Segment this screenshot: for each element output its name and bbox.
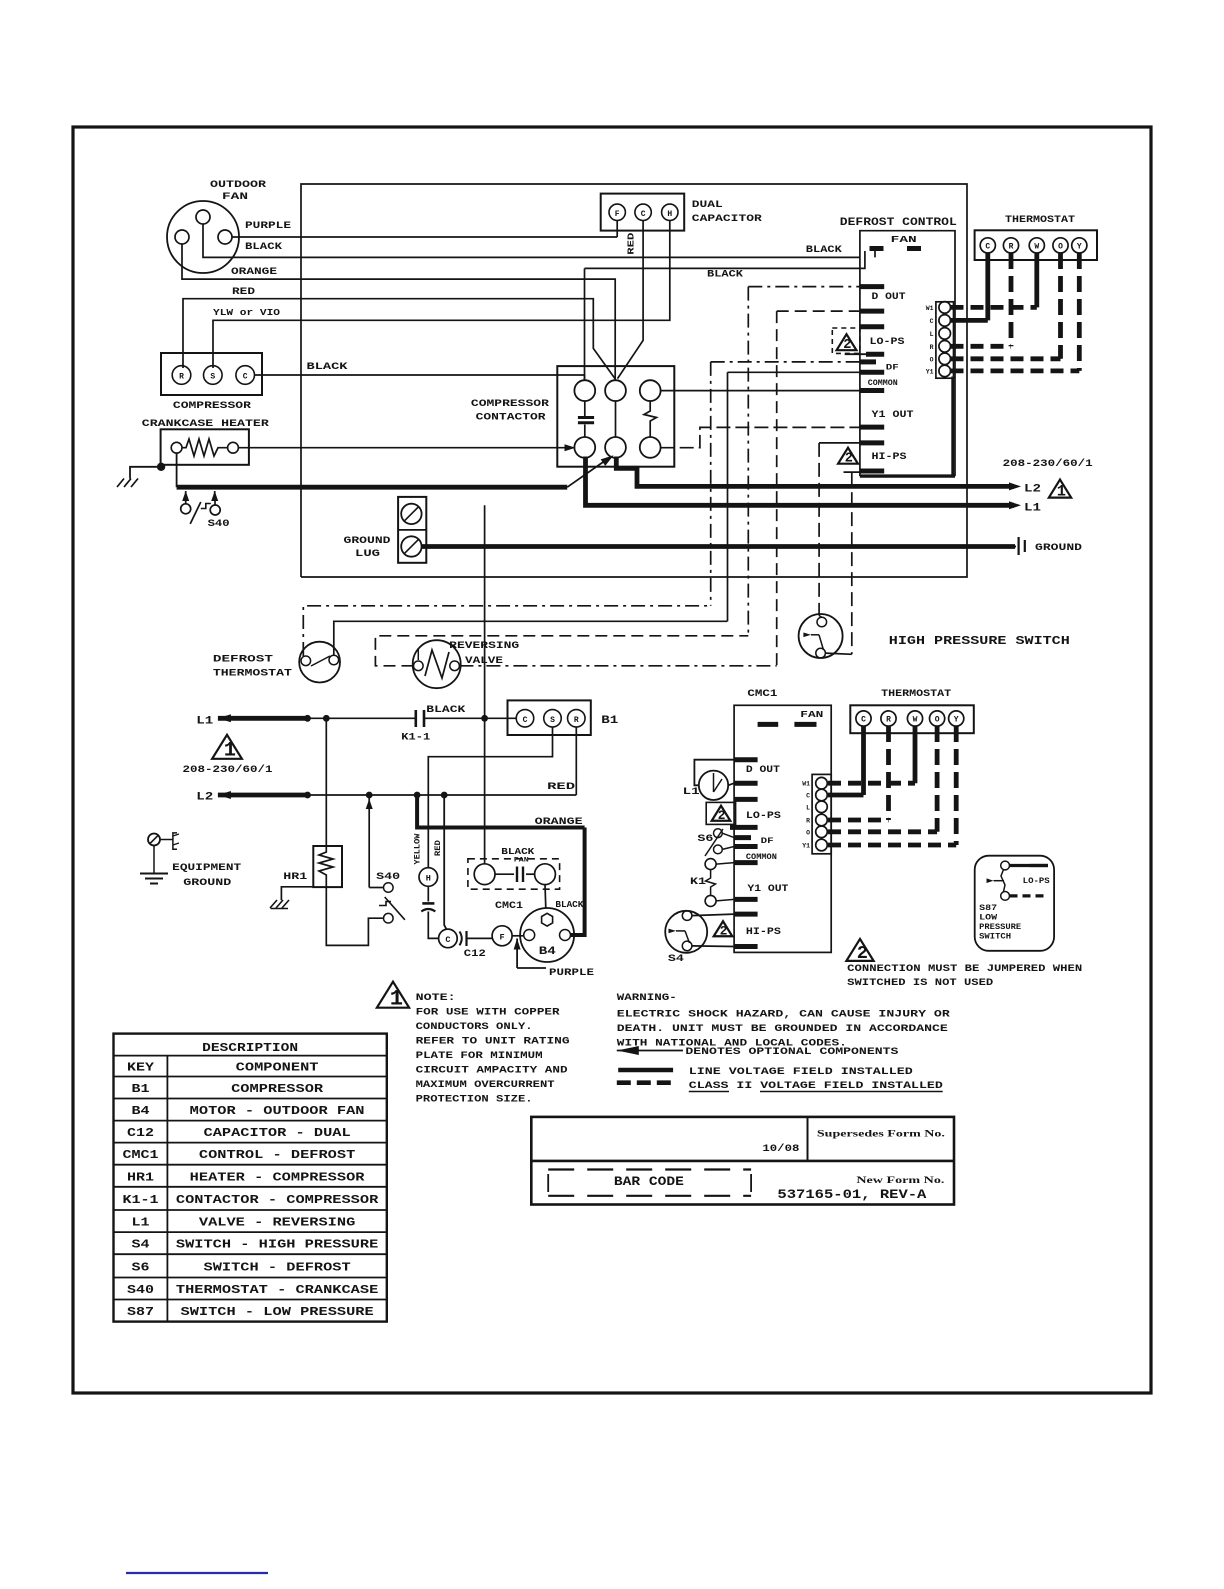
svg-text:DUAL: DUAL — [692, 199, 723, 211]
legend table column divider — [166, 1056, 168, 1322]
svg-text:R: R — [179, 373, 184, 382]
stem S40 right — [214, 491, 216, 506]
svg-text:FAN: FAN — [800, 709, 823, 720]
CMC1 terminal bar HPS upper — [734, 912, 758, 917]
S4 bottom terminal lower — [682, 941, 692, 951]
thermostat terminal strip top — [975, 230, 1097, 260]
wire CMC1 Y1 to thermostat Y dashed — [828, 843, 956, 848]
svg-text:THERMOSTAT: THERMOSTAT — [213, 668, 292, 680]
svg-text:EQUIPMENT: EQUIPMENT — [172, 862, 241, 874]
terminal bar LO-PS — [860, 324, 884, 329]
wire L1 junction down to HR1 — [325, 718, 327, 845]
svg-text:ORANGE: ORANGE — [231, 266, 277, 278]
svg-text:BLACK: BLACK — [555, 900, 584, 910]
wire RED capacitor C to contactor — [618, 221, 644, 379]
svg-text:LINE VOLTAGE FIELD INSTALLED: LINE VOLTAGE FIELD INSTALLED — [689, 1066, 913, 1078]
wire reversing valve right terminal row — [459, 665, 776, 667]
wire HPS upper row — [819, 442, 860, 444]
svg-text:B1: B1 — [132, 1082, 150, 1096]
thermostat wire C down — [985, 253, 990, 320]
thermostat terminal strip bottom — [850, 705, 974, 733]
fan bar drop to black row — [874, 251, 876, 257]
warning triangle 2 at HI-PS — [838, 448, 858, 464]
svg-text:D OUT: D OUT — [872, 292, 906, 303]
wire purple drop from F terminal — [616, 221, 618, 237]
svg-text:1: 1 — [390, 986, 403, 1011]
contactor middle pole — [615, 401, 617, 437]
wire heater left terminal down to L2 — [176, 453, 178, 487]
CMC1 terminal bar solenoid — [734, 781, 758, 786]
svg-text:CAPACITOR: CAPACITOR — [692, 213, 763, 225]
svg-text:DENOTES OPTIONAL COMPONENTS: DENOTES OPTIONAL COMPONENTS — [685, 1046, 898, 1058]
contactor terminal T1 bottom — [574, 437, 595, 458]
svg-text:THERMOSTAT - CRANKCASE: THERMOSTAT - CRANKCASE — [176, 1283, 378, 1297]
wire S6 bottom to common — [722, 847, 734, 850]
K1 coil terminal bottom — [705, 895, 716, 906]
svg-text:SWITCH - LOW PRESSURE: SWITCH - LOW PRESSURE — [181, 1305, 374, 1319]
svg-text:Y: Y — [954, 716, 959, 725]
legend table row lines — [114, 1055, 387, 1057]
svg-text:W: W — [913, 716, 918, 725]
bold ground wire across — [422, 544, 1015, 549]
terminal R — [172, 366, 191, 385]
svg-text:PROTECTION SIZE.: PROTECTION SIZE. — [416, 1094, 533, 1106]
defrost thermostat contact right — [329, 655, 339, 665]
wire ORANGE L2 to B4 — [417, 795, 584, 828]
arrow L2 right — [1009, 482, 1021, 490]
svg-text:R: R — [930, 344, 934, 351]
wire HR1 box to chassis ground — [281, 887, 313, 900]
warning triangle 2 note — [846, 939, 873, 961]
wire CMC1 contact to B4 black — [544, 885, 547, 909]
B4 terminal right — [560, 930, 571, 941]
svg-text:C: C — [523, 716, 528, 725]
thermostat2 wire O down dashed — [935, 726, 940, 832]
CMC1 FAN bar left — [758, 722, 779, 727]
wire H to C terminal — [428, 912, 438, 939]
terminal bar LO-PS lower — [845, 353, 866, 355]
svg-text:RED: RED — [433, 840, 443, 856]
S40 contact right — [210, 505, 220, 515]
L1 solenoid plunger — [713, 773, 715, 792]
svg-text:W1: W1 — [802, 781, 810, 788]
crankcase heater HR1 box — [161, 429, 249, 465]
purple arrow at B4 — [514, 939, 521, 950]
wire defrost thermostat left up — [303, 606, 710, 656]
wire CMC1 C to thermostat C — [828, 793, 864, 798]
wire S4 top to vertical — [819, 616, 822, 618]
equipment ground spade — [160, 839, 173, 841]
thermostat terminal O top — [1053, 238, 1068, 253]
legend optional components arrow — [617, 1046, 639, 1055]
svg-text:HI-PS: HI-PS — [746, 927, 781, 938]
svg-text:New Form No.: New Form No. — [856, 1175, 944, 1185]
svg-text:C: C — [806, 793, 810, 800]
wire connector O to thermostat O dashed — [951, 356, 1061, 361]
arrow L1 right — [1009, 501, 1021, 509]
svg-text:S40: S40 — [376, 871, 400, 883]
svg-text:CIRCUIT AMPACITY AND: CIRCUIT AMPACITY AND — [416, 1065, 568, 1077]
defrost thermostat circle — [299, 642, 340, 683]
connector pin O — [939, 353, 951, 365]
wire DF row to defrost board — [711, 361, 860, 363]
svg-text:PRESSURE: PRESSURE — [979, 923, 1021, 932]
wire L1 solenoid to O terminal — [728, 783, 734, 785]
svg-text:THERMOSTAT: THERMOSTAT — [1005, 214, 1075, 226]
bar code dashed box — [548, 1168, 751, 1170]
svg-text:S6: S6 — [132, 1260, 150, 1274]
wire CMC1 W1 to thermostat W dashed — [828, 781, 915, 786]
wire HR1 bottom to S40 — [326, 887, 383, 945]
S6 defrost switch contact top — [714, 829, 723, 838]
svg-text:HR1: HR1 — [127, 1170, 154, 1184]
diagram border frame — [73, 127, 1151, 1393]
ground lug divider — [398, 529, 426, 531]
thermostat terminal R bottom — [881, 711, 896, 726]
warning triangle 2 LO-PS CMC1 — [712, 806, 731, 821]
svg-text:C: C — [445, 935, 450, 945]
form table divider vertical — [807, 1117, 809, 1161]
svg-text:FOR USE WITH COPPER: FOR USE WITH COPPER — [416, 1007, 561, 1019]
wire O terminal to reversing valve vertical — [776, 311, 778, 666]
svg-text:L1: L1 — [683, 786, 700, 798]
S40 contact left — [181, 504, 191, 514]
svg-text:LO-PS: LO-PS — [1023, 876, 1050, 886]
contactor coil capacitor symbol — [584, 401, 586, 416]
S4 upper terminal bottom — [816, 648, 826, 658]
S40 switch blade — [190, 502, 201, 524]
S87 terminal top — [1001, 861, 1010, 870]
underline class II — [689, 1091, 729, 1093]
svg-text:K1-1: K1-1 — [123, 1193, 159, 1207]
terminal bar reversing valve O — [860, 309, 884, 314]
svg-text:BLACK: BLACK — [245, 241, 283, 253]
connector pin W1 — [939, 302, 951, 314]
svg-text:O: O — [806, 829, 810, 836]
svg-text:L1: L1 — [196, 716, 214, 728]
capacitor terminal C — [635, 204, 651, 220]
svg-text:S40: S40 — [208, 518, 230, 530]
terminal bar COMMON — [860, 370, 884, 375]
svg-text:2: 2 — [718, 808, 726, 823]
svg-text:KEY: KEY — [127, 1061, 155, 1075]
thermostat wire W down — [1034, 253, 1039, 307]
S40 bottom contact bottom — [384, 913, 394, 923]
wire S6 top to DF — [722, 833, 734, 837]
svg-text:O: O — [1058, 243, 1063, 252]
FAN terminal bar right — [907, 246, 921, 251]
S4 upper terminal top — [817, 617, 827, 627]
CMC1 terminal bar common2 — [734, 860, 758, 865]
thermostat terminal W bottom — [907, 711, 922, 726]
svg-text:R: R — [886, 716, 891, 725]
svg-text:O: O — [935, 716, 940, 725]
outdoor fan motor B4 symbol top — [167, 201, 239, 273]
svg-text:2: 2 — [720, 923, 728, 938]
CMC1 terminal bar HI-PS — [734, 944, 758, 949]
ground lug box — [398, 497, 426, 563]
CMC1 connector pin O — [816, 826, 828, 838]
contactor wire from black row down to T1 — [584, 268, 586, 380]
junction dot B1 feed — [481, 715, 488, 722]
svg-text:C: C — [985, 243, 990, 252]
svg-text:Supersedes Form No.: Supersedes Form No. — [817, 1129, 945, 1139]
wire Y1 pin down to board edge — [951, 377, 954, 477]
S40 bottom contact top — [384, 883, 394, 893]
black wire contactor T1 top row — [585, 251, 865, 268]
wire connector R to thermostat R dashed — [951, 344, 1012, 349]
diagonal arrow L2 to T2 — [567, 460, 606, 487]
svg-text:2: 2 — [857, 942, 868, 964]
svg-text:Y: Y — [1077, 243, 1082, 252]
B1 terminal R — [568, 710, 586, 728]
contactor terminal T1 top — [574, 380, 595, 401]
connector pin L — [939, 328, 951, 340]
svg-text:2: 2 — [845, 452, 853, 467]
S4 bottom terminal upper — [682, 911, 692, 921]
svg-text:Y1 OUT: Y1 OUT — [747, 884, 788, 895]
terminal F — [492, 926, 512, 946]
S40 blade bracket — [201, 504, 211, 509]
CMC1 terminal bar Y1 OUT — [734, 897, 758, 902]
H capacitor bars — [427, 886, 429, 901]
svg-text:C: C — [641, 210, 646, 219]
svg-text:COMPRESSOR: COMPRESSOR — [173, 400, 252, 412]
svg-text:COMMON: COMMON — [868, 379, 898, 388]
wire C12 to F — [468, 937, 493, 939]
wire high pressure switch top vertical — [818, 443, 820, 616]
wire heater to contactor terminal — [238, 447, 574, 449]
defrost control board outline — [860, 231, 955, 476]
wire L2 junction down to S40 with arrow — [368, 795, 370, 883]
svg-text:CONDUCTORS ONLY.: CONDUCTORS ONLY. — [416, 1021, 533, 1033]
terminal C — [236, 366, 255, 385]
wire K1-1 to compressor C — [424, 717, 516, 719]
terminal S — [204, 366, 223, 385]
wire S4 to HI-PS bar — [692, 945, 734, 948]
svg-text:L2: L2 — [196, 792, 213, 804]
wire K1 top to common2 — [716, 863, 734, 865]
wire S4 to HPS upper bar — [692, 914, 734, 916]
terminal bar DF — [860, 359, 876, 364]
svg-text:S4: S4 — [668, 953, 684, 965]
reversing valve coil zigzag — [425, 650, 449, 678]
wire defrost thermostat right up — [334, 621, 728, 655]
defrost plug connector box — [936, 302, 954, 378]
wire O row to defrost board — [777, 310, 860, 312]
connector pin C — [939, 315, 951, 327]
CMC1 connector pin L — [816, 801, 828, 813]
wire BLACK fan to defrost control FAN — [203, 224, 860, 257]
CMC1 board outline — [734, 705, 831, 952]
svg-text:2: 2 — [843, 338, 851, 353]
S4 upper blade — [819, 635, 824, 650]
thermostat2 wire R down dashed — [886, 726, 891, 820]
svg-text:F: F — [615, 210, 620, 219]
S40 bottom blade — [379, 902, 391, 906]
thermostat terminal Y bottom — [949, 711, 964, 726]
svg-text:S: S — [550, 716, 555, 725]
capacitor C12 symbol — [460, 932, 462, 946]
svg-text:PLATE FOR MINIMUM: PLATE FOR MINIMUM — [416, 1050, 543, 1062]
wire BLACK compressor C to contactor — [255, 375, 585, 380]
svg-text:R: R — [574, 716, 579, 725]
svg-text:C: C — [930, 318, 934, 325]
svg-text:BLACK: BLACK — [501, 847, 535, 857]
svg-text:O: O — [930, 356, 934, 363]
svg-text:L1: L1 — [1024, 503, 1042, 515]
wire ORANGE fan to contactor — [182, 244, 615, 380]
svg-text:COMPRESSOR: COMPRESSOR — [231, 1082, 324, 1096]
CMC1 terminal bar D OUT — [734, 757, 758, 762]
K1 coil symbol — [706, 870, 716, 896]
svg-text:CONTACTOR: CONTACTOR — [476, 412, 547, 424]
svg-text:B4: B4 — [539, 946, 557, 958]
wire T3 top to defrost control terminal — [661, 390, 860, 392]
svg-text:L: L — [930, 331, 934, 338]
dual capacitor C12 box — [601, 194, 685, 231]
terminal bar D OUT — [860, 284, 884, 289]
wire connector W1 to thermostat W dashed — [951, 305, 1037, 310]
terminal bar HI-PS — [860, 469, 884, 474]
svg-text:ORANGE: ORANGE — [535, 816, 583, 828]
defrost thermostat blade — [311, 656, 330, 666]
CMC1 terminal bar DF — [734, 835, 751, 840]
svg-text:HEATER - COMPRESSOR: HEATER - COMPRESSOR — [190, 1170, 366, 1184]
thermostat2 wire C down — [861, 726, 866, 795]
ground lug screw bottom — [401, 536, 421, 556]
svg-text:BLACK: BLACK — [426, 704, 466, 716]
S87 blade — [1001, 870, 1005, 892]
svg-text:CONTROL - DEFROST: CONTROL - DEFROST — [199, 1148, 355, 1162]
svg-text:H: H — [667, 210, 672, 219]
form number table frame — [531, 1117, 954, 1205]
capacitor terminal F — [609, 204, 625, 220]
wire DF to defrost thermostat vertical — [710, 362, 712, 606]
svg-text:RED: RED — [232, 286, 255, 298]
svg-text:R: R — [806, 818, 810, 825]
reversing valve solenoid circle — [413, 640, 461, 688]
wire RED L2 down to C — [444, 795, 446, 929]
connector pin Y1 — [939, 365, 951, 377]
svg-text:SWITCHED IS NOT USED: SWITCHED IS NOT USED — [847, 977, 993, 989]
svg-text:K1-1: K1-1 — [401, 732, 430, 744]
svg-text:BAR CODE: BAR CODE — [614, 1175, 684, 1189]
S6 contact bottom — [714, 845, 723, 854]
svg-text:W: W — [1034, 243, 1039, 252]
thermostat terminal C top — [980, 238, 995, 253]
wire PURPLE fan to dual capacitor F — [232, 236, 617, 238]
S6 blade — [705, 829, 723, 856]
capacitor terminal H — [662, 204, 678, 220]
svg-text:COMPONENT: COMPONENT — [236, 1061, 319, 1075]
wire L1 row thin — [308, 717, 416, 719]
bold wire L1 from contactor T1 bottom — [586, 457, 1015, 506]
wire L1 solenoid to D OUT — [694, 760, 734, 786]
svg-text:CONNECTION MUST BE JUMPERED WH: CONNECTION MUST BE JUMPERED WHEN — [847, 963, 1082, 975]
warning triangle 2 HI-PS CMC1 — [714, 921, 733, 936]
legend line voltage sample — [618, 1068, 673, 1073]
wire reversing valve left terminal loop — [417, 648, 419, 660]
svg-text:CMC1: CMC1 — [123, 1148, 159, 1162]
bold wire L2 from contactor T2 bottom — [616, 457, 1014, 487]
svg-text:L1: L1 — [132, 1216, 150, 1230]
svg-text:DEATH. UNIT MUST BE GROUNDED I: DEATH. UNIT MUST BE GROUNDED IN ACCORDAN… — [617, 1023, 948, 1035]
svg-text:10/08: 10/08 — [762, 1143, 799, 1155]
svg-text:BLACK: BLACK — [806, 245, 842, 256]
thermostat terminal O bottom — [930, 711, 945, 726]
svg-text:S87: S87 — [979, 904, 997, 913]
svg-text:NOTE:: NOTE: — [416, 992, 456, 1004]
svg-text:K1: K1 — [690, 876, 706, 888]
thermostat wire O down dashed — [1058, 253, 1063, 359]
contact K1-1 bars — [414, 710, 417, 727]
warning triangle 1 note — [377, 982, 409, 1008]
S87 wire top — [1010, 864, 1049, 867]
wire RED compressor R to contactor — [183, 299, 615, 379]
svg-text:C: C — [861, 716, 866, 725]
compressor B1 terminal box bottom — [508, 700, 591, 735]
reversing valve solenoid L1 circle — [699, 771, 728, 800]
svg-text:LOW: LOW — [979, 914, 997, 923]
CMC1 connector pin Y1 — [816, 839, 828, 851]
heater resistor element — [182, 439, 228, 456]
wire junction to equipment ground — [130, 467, 161, 479]
optional box LO-PS CMC1 — [706, 802, 735, 824]
thermostat2 wire W down — [913, 726, 918, 783]
chassis ground symbol right — [1009, 546, 1016, 548]
bold wire L2 run lower left — [177, 485, 568, 490]
svg-text:GROUND: GROUND — [344, 535, 391, 547]
defrost thermostat contact left — [301, 656, 311, 666]
svg-text:GROUND: GROUND — [183, 877, 231, 889]
contactor terminal T3 top — [640, 380, 661, 401]
svg-text:DESCRIPTION: DESCRIPTION — [202, 1041, 298, 1055]
svg-text:CLASS II VOLTAGE FIELD INSTALL: CLASS II VOLTAGE FIELD INSTALLED — [689, 1080, 943, 1092]
wire CMC1 R to thermostat R dashed — [828, 818, 889, 823]
CMC1 contact bars — [495, 873, 514, 875]
thermostat wire R down dashed — [1009, 253, 1014, 346]
wire high pressure switch bottom vertical — [851, 472, 853, 654]
svg-text:VALVE - REVERSING: VALVE - REVERSING — [199, 1216, 355, 1230]
terminal H — [419, 868, 438, 887]
defrost board bottom bold edge — [860, 474, 955, 477]
K1 coil terminal top — [705, 859, 716, 870]
wire L2 row thin — [308, 794, 577, 796]
svg-text:FAN: FAN — [891, 234, 917, 245]
svg-text:Y1 OUT: Y1 OUT — [872, 410, 914, 421]
form table divider horizontal — [531, 1160, 954, 1163]
thermostat2 wire Y down dashed — [954, 726, 959, 845]
svg-text:YELLOW: YELLOW — [413, 833, 423, 865]
wire D OUT row to defrost board — [748, 286, 860, 288]
svg-text:1: 1 — [1057, 482, 1066, 500]
CMC1 plug connector box — [812, 774, 831, 853]
svg-text:208-230/60/1: 208-230/60/1 — [183, 764, 273, 776]
svg-text:THERMOSTAT: THERMOSTAT — [881, 688, 951, 700]
svg-text:ELECTRIC SHOCK HAZARD, CAN CAU: ELECTRIC SHOCK HAZARD, CAN CAUSE INJURY … — [617, 1009, 951, 1021]
svg-text:C12: C12 — [127, 1126, 154, 1140]
wire T3 bottom to Y1 OUT of defrost control — [661, 427, 860, 447]
wire COMMON to defrost thermostat vertical — [727, 372, 729, 621]
reversing valve terminal right — [450, 661, 460, 671]
wire connector C to thermostat C — [951, 318, 988, 323]
dashed optional box LO-PS — [832, 328, 860, 353]
CMC1 terminal bar LO-PS — [734, 797, 758, 802]
svg-text:WARNING-: WARNING- — [617, 992, 677, 1004]
S4 bottom blade — [685, 931, 690, 943]
ground symbol hash marks — [117, 479, 124, 488]
